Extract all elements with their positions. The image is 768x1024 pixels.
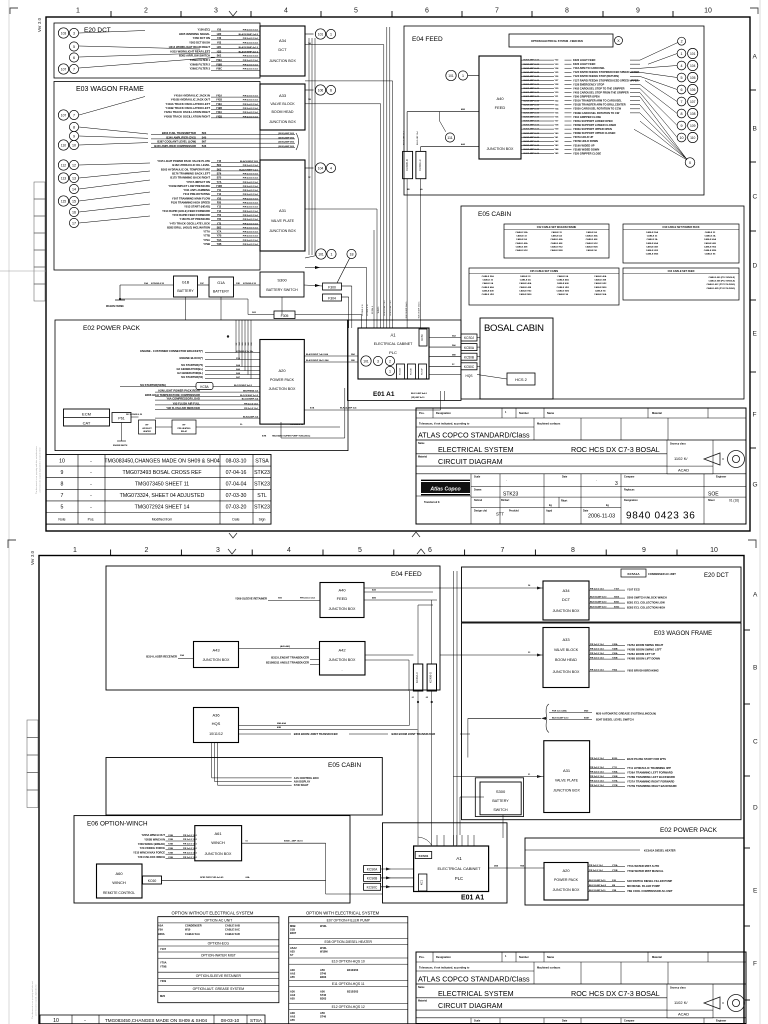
junction box A33 bbox=[260, 84, 305, 130]
svg-text:CABLE 408: CABLE 408 bbox=[704, 242, 717, 245]
svg-text:18: 18 bbox=[350, 252, 354, 256]
svg-text:Y010B IMPACT LOW PRESSURE: Y010B IMPACT LOW PRESSURE bbox=[168, 184, 210, 188]
option feed rhs box bbox=[509, 34, 613, 47]
svg-text:Y19A: Y19A bbox=[216, 103, 222, 106]
svg-text:-: - bbox=[90, 482, 92, 488]
junction box A20 p2 bbox=[544, 863, 588, 901]
svg-text:Y9B: Y9B bbox=[217, 243, 222, 246]
HCS 2 box bbox=[507, 373, 535, 385]
svg-text:Y42A: Y42A bbox=[216, 111, 222, 114]
svg-text:60A: 60A bbox=[246, 876, 250, 879]
junction box A42 bbox=[320, 642, 366, 676]
svg-text:PIR 2x0.5 13x1: PIR 2x0.5 13x1 bbox=[243, 190, 259, 192]
svg-text:1: 1 bbox=[331, 252, 333, 256]
connector KC40A-C p2 bbox=[413, 664, 422, 691]
svg-text:103: 103 bbox=[61, 31, 67, 35]
junction box A31 p2 bbox=[544, 741, 590, 813]
svg-text:A56: A56 bbox=[320, 1011, 325, 1015]
svg-text:Y420A TRACK OSCILLATION RIGHT: Y420A TRACK OSCILLATION RIGHT bbox=[164, 110, 210, 114]
svg-text:Y403 CAROUSEL STOP FROM THE GR: Y403 CAROUSEL STOP FROM THE GRIPPER bbox=[573, 90, 629, 94]
battery switch S300 bbox=[260, 272, 304, 297]
svg-text:Y307B HOLD DOWN: Y307B HOLD DOWN bbox=[573, 139, 598, 143]
svg-text:PIR 2x0.5 13x1: PIR 2x0.5 13x1 bbox=[243, 173, 259, 175]
svg-text:KC50: KC50 bbox=[420, 334, 424, 341]
svg-text:PIR 3x0.5 13x1: PIR 3x0.5 13x1 bbox=[243, 165, 259, 167]
svg-text:CABLE 40A: CABLE 40A bbox=[585, 235, 598, 238]
ECM CAT box bbox=[64, 409, 110, 426]
svg-text:JUNCTION BOX: JUNCTION BOX bbox=[553, 888, 580, 892]
svg-text:E04 FEED: E04 FEED bbox=[412, 36, 443, 43]
svg-text:Y127 RAPID FEED/H STOP/REDUCED: Y127 RAPID FEED/H STOP/REDUCED SPEED UPP… bbox=[573, 78, 639, 82]
svg-text:PIR 2x0.5 13x1: PIR 2x0.5 13x1 bbox=[243, 244, 259, 246]
svg-text:PIR 2x0.5 13x1: PIR 2x0.5 13x1 bbox=[589, 865, 604, 867]
svg-text:permission be copied, duplicat: permission be copied, duplicated or show… bbox=[39, 448, 42, 492]
svg-text:101: 101 bbox=[363, 359, 369, 363]
svg-text:A31: A31 bbox=[563, 768, 571, 773]
svg-text:PIR 2x0.5 13x1: PIR 2x0.5 13x1 bbox=[243, 100, 259, 102]
svg-text:Y425A BOOM SWING RIGHT: Y425A BOOM SWING RIGHT bbox=[627, 643, 664, 647]
svg-text:Y303B CAROUSEL ROTATION TO CW: Y303B CAROUSEL ROTATION TO CW bbox=[573, 111, 620, 115]
svg-text:KC1A3: KC1A3 bbox=[399, 367, 402, 375]
svg-text:S1B: S1B bbox=[290, 928, 295, 932]
svg-text:6: 6 bbox=[428, 547, 432, 554]
svg-text:CABLE 40A: CABLE 40A bbox=[594, 275, 607, 278]
node 107 bbox=[58, 64, 68, 74]
svg-text:VALVE BLOCK: VALVE BLOCK bbox=[270, 102, 295, 106]
svg-text:10: 10 bbox=[72, 143, 76, 147]
svg-text:ELECTRICAL SYSTEM: ELECTRICAL SYSTEM bbox=[438, 445, 514, 454]
svg-text:E05 CABIN: E05 CABIN bbox=[478, 211, 512, 218]
svg-text:P20: P20 bbox=[217, 202, 222, 205]
svg-text:CABLE 40A: CABLE 40A bbox=[482, 286, 495, 289]
svg-text:BLK/9-6BP 2x13: BLK/9-6BP 2x13 bbox=[524, 84, 540, 86]
svg-text:STK23: STK23 bbox=[254, 470, 270, 476]
svg-text:(3030)-6BP 3K0: (3030)-6BP 3K0 bbox=[278, 137, 295, 139]
svg-text:Y20B: Y20B bbox=[168, 835, 174, 837]
svg-text:KC40A-C: KC40A-C bbox=[418, 159, 422, 170]
svg-text:3A4: 3A4 bbox=[238, 342, 241, 345]
wire across to bundle bbox=[305, 267, 367, 269]
svg-text:KC50A: KC50A bbox=[464, 346, 475, 350]
svg-text:G1A: G1A bbox=[217, 281, 225, 285]
node 7 bbox=[69, 64, 78, 73]
svg-text:1: 1 bbox=[462, 74, 464, 78]
svg-text:D: D bbox=[753, 805, 758, 812]
svg-text:Y420B TRACK OSCILLATION RIGHT: Y420B TRACK OSCILLATION RIGHT bbox=[164, 114, 211, 118]
svg-text:JUNCTION BOX: JUNCTION BOX bbox=[553, 670, 580, 674]
svg-text:07-04-16: 07-04-16 bbox=[226, 470, 247, 476]
svg-text:B346 AMPLIFIER COMPRESSOR: B346 AMPLIFIER COMPRESSOR bbox=[154, 144, 196, 148]
svg-text:FEED: FEED bbox=[495, 105, 506, 110]
svg-text:6: 6 bbox=[681, 88, 683, 92]
svg-text:B67: B67 bbox=[202, 141, 207, 144]
svg-text:KCS0A: KCS0A bbox=[367, 868, 378, 872]
svg-text:BLK/9-6BP 2x13: BLK/9-6BP 2x13 bbox=[524, 117, 540, 119]
svg-text:D: D bbox=[753, 263, 758, 270]
svg-text:PIR 2x0.5 13x1: PIR 2x0.5 13x1 bbox=[243, 116, 259, 118]
revision row page 2 bbox=[40, 1015, 265, 1024]
svg-text:07-03-30: 07-03-30 bbox=[226, 493, 247, 499]
KC5A2A wire bbox=[525, 849, 640, 851]
svg-text:ACAD: ACAD bbox=[678, 1012, 689, 1017]
svg-text:Y20B: Y20B bbox=[168, 857, 174, 859]
svg-text:A: A bbox=[753, 592, 758, 599]
svg-text:BLK/9-6BP 2x13: BLK/9-6BP 2x13 bbox=[524, 141, 540, 143]
svg-text:(3030)-6BP 3K0: (3030)-6BP 3K0 bbox=[278, 142, 295, 144]
svg-text:S500 SWITCH UNLOCK WINCH: S500 SWITCH UNLOCK WINCH bbox=[627, 596, 667, 600]
junction box A34 bbox=[260, 26, 305, 76]
svg-text:CABLE 408: CABLE 408 bbox=[586, 238, 599, 241]
svg-text:Pos.: Pos. bbox=[419, 955, 425, 959]
svg-text:S746: S746 bbox=[320, 1015, 327, 1019]
svg-text:PIR 2x0.5 13x1: PIR 2x0.5 13x1 bbox=[243, 108, 259, 110]
svg-text:KCS0B: KCS0B bbox=[367, 877, 377, 881]
svg-text:E08 OPTION-DIESEL HEATER: E08 OPTION-DIESEL HEATER bbox=[325, 940, 373, 944]
svg-text:E01 A1: E01 A1 bbox=[461, 895, 484, 902]
svg-text:BOOM HEAD: BOOM HEAD bbox=[272, 110, 294, 114]
svg-text:CABLE 40C (P57 FOLDING): CABLE 40C (P57 FOLDING) bbox=[706, 283, 735, 286]
E04 left nodes bbox=[446, 70, 456, 80]
KC50 connector boxes right bbox=[461, 334, 477, 341]
svg-text:E03 WAGON FRAME: E03 WAGON FRAME bbox=[76, 86, 144, 93]
svg-text:B351: B351 bbox=[614, 602, 620, 604]
svg-text:Y69A: Y69A bbox=[216, 59, 222, 62]
svg-text:B82: B82 bbox=[217, 226, 222, 229]
svg-text:8: 8 bbox=[681, 112, 683, 116]
svg-text:115: 115 bbox=[61, 199, 66, 203]
svg-text:Replaces: Replaces bbox=[624, 489, 635, 492]
svg-text:F: F bbox=[753, 961, 757, 968]
svg-text:HEATER: HEATER bbox=[143, 430, 151, 433]
svg-text:JUNCTION BOX: JUNCTION BOX bbox=[329, 607, 356, 611]
svg-text:VALVE PLATE: VALVE PLATE bbox=[271, 219, 295, 223]
svg-text:M1 STARTER(75): M1 STARTER(75) bbox=[181, 363, 203, 367]
svg-text:KONGE-6 16: KONGE-6 16 bbox=[367, 304, 369, 315]
svg-text:Y425B BOOM SWING LEFT: Y425B BOOM SWING LEFT bbox=[627, 648, 662, 652]
svg-text:SWITCH: SWITCH bbox=[493, 808, 508, 812]
wires ECM row bbox=[131, 416, 139, 418]
title block page 2 partial bbox=[416, 952, 746, 1024]
svg-text:BLOCK/WHP 2x4: BLOCK/WHP 2x4 bbox=[242, 398, 259, 401]
svg-text:CABLE 50A: CABLE 50A bbox=[646, 231, 659, 234]
svg-text:Y011 ANTI-JAMMING: Y011 ANTI-JAMMING bbox=[183, 188, 210, 192]
svg-text:2: 2 bbox=[389, 359, 391, 363]
battery switch S300 p2 bbox=[475, 778, 523, 817]
svg-text:C04 CABLE SET FEED: C04 CABLE SET FEED bbox=[668, 270, 695, 273]
svg-text:BLK/9-6BP 2x13: BLK/9-6BP 2x13 bbox=[524, 92, 540, 94]
svg-text:PIR 2x0.5 13x1: PIR 2x0.5 13x1 bbox=[183, 839, 198, 841]
svg-text:Y15: Y15 bbox=[217, 160, 222, 163]
svg-text:STK23: STK23 bbox=[503, 492, 519, 498]
svg-text:BLK/29-6BP 19x0.5: BLK/29-6BP 19x0.5 bbox=[406, 302, 408, 319]
svg-text:CABLE 2A: CABLE 2A bbox=[520, 279, 531, 282]
svg-text:A36: A36 bbox=[290, 968, 295, 972]
svg-text:WAGON FRAME: WAGON FRAME bbox=[106, 305, 124, 308]
svg-text:BLK/29-6BP 70x1: BLK/29-6BP 70x1 bbox=[390, 301, 392, 316]
svg-text:KONGE-6 16: KONGE-6 16 bbox=[362, 304, 364, 315]
svg-text:104: 104 bbox=[690, 64, 696, 68]
svg-text:Y426B BOOM LIFT DOWN: Y426B BOOM LIFT DOWN bbox=[627, 657, 660, 661]
svg-text:PRE-HEATING: PRE-HEATING bbox=[178, 427, 191, 430]
node 106 bbox=[315, 85, 325, 95]
svg-text:-: - bbox=[90, 470, 92, 476]
svg-text:Y79B: Y79B bbox=[203, 242, 210, 246]
svg-text:A40: A40 bbox=[338, 588, 346, 593]
svg-text:OPTION-AC UNIT: OPTION-AC UNIT bbox=[204, 918, 232, 922]
svg-text:Y26B: Y26B bbox=[612, 776, 618, 778]
svg-text:Y160 PILOT PRESSURE: Y160 PILOT PRESSURE bbox=[180, 217, 211, 221]
svg-text:KONGE-6 16: KONGE-6 16 bbox=[290, 424, 304, 426]
svg-text:Number: Number bbox=[519, 411, 529, 415]
svg-text:CABLE 40A: CABLE 40A bbox=[646, 242, 659, 245]
svg-text:Y012 PRE-ROTATING: Y012 PRE-ROTATING bbox=[183, 192, 210, 196]
svg-text:PIR 2x0.5 13x1: PIR 2x0.5 13x1 bbox=[590, 670, 605, 672]
svg-text:Pos.: Pos. bbox=[88, 517, 95, 521]
svg-text:Y118 ARM TO CAROUSEL: Y118 ARM TO CAROUSEL bbox=[573, 66, 605, 70]
svg-text:Scale: Scale bbox=[474, 476, 481, 479]
svg-text:PIR 2x0.5 13x1: PIR 2x0.5 13x1 bbox=[243, 104, 259, 106]
svg-text:Material: Material bbox=[652, 411, 662, 415]
svg-text:PIR 2x0.5 13x1: PIR 2x0.5 13x1 bbox=[590, 785, 605, 787]
svg-text:-: - bbox=[84, 1018, 86, 1024]
svg-text:CABLE 2A: CABLE 2A bbox=[705, 235, 716, 238]
svg-text:CIRCUIT DIAGRAM: CIRCUIT DIAGRAM bbox=[438, 457, 503, 466]
svg-text:1: 1 bbox=[389, 369, 391, 373]
svg-text:STSA: STSA bbox=[255, 458, 269, 464]
svg-text:BLK/10-6BP 2x10: BLK/10-6BP 2x10 bbox=[552, 718, 569, 720]
svg-text:Y50: Y50 bbox=[217, 197, 222, 200]
svg-text:JUNCTION BOX: JUNCTION BOX bbox=[487, 147, 514, 151]
svg-text:3A6: 3A6 bbox=[244, 342, 247, 345]
svg-text:Y70A WATER MIST AUTO: Y70A WATER MIST AUTO bbox=[627, 864, 659, 868]
svg-text:Y307A HOLD UP: Y307A HOLD UP bbox=[573, 135, 593, 139]
svg-text:ATLAS COPCO STANDARD/Class: ATLAS COPCO STANDARD/Class bbox=[418, 975, 530, 984]
svg-text:KC5A1A: KC5A1A bbox=[627, 572, 640, 576]
svg-text:1: 1 bbox=[330, 32, 332, 36]
svg-text:BLK/9-6BP 2x13: BLK/9-6BP 2x13 bbox=[524, 60, 540, 62]
svg-text:E01 A1: E01 A1 bbox=[373, 391, 395, 398]
svg-text:BOSAL CABIN: BOSAL CABIN bbox=[484, 323, 544, 334]
svg-text:W10L: W10L bbox=[320, 946, 327, 950]
svg-text:STL: STL bbox=[257, 493, 267, 499]
section box E06 OPTION-WINCH bbox=[74, 816, 350, 903]
battery G1A bbox=[209, 277, 234, 297]
svg-text:Appd: Appd bbox=[546, 510, 553, 513]
svg-text:PIR 2x0.5 13x1: PIR 2x0.5 13x1 bbox=[590, 644, 605, 646]
svg-text:HQS: HQS bbox=[212, 721, 221, 726]
svg-text:Y209 WINCH (BREAK): Y209 WINCH (BREAK) bbox=[138, 842, 165, 846]
section box E03 WAGON FRAME p2 bbox=[462, 623, 742, 820]
KC60 wire bbox=[162, 879, 326, 881]
winch remote A60 bbox=[97, 864, 143, 898]
svg-text:Material: Material bbox=[418, 456, 427, 459]
svg-text:B62: B62 bbox=[217, 164, 222, 167]
svg-text:B303 BOOM JOINT TRANSDUCER: B303 BOOM JOINT TRANSDUCER bbox=[392, 732, 436, 736]
wire into A34 p2 bbox=[364, 587, 543, 589]
svg-text:Drawn: Drawn bbox=[474, 489, 482, 492]
svg-text:BLK/9-6BP 2x13: BLK/9-6BP 2x13 bbox=[524, 145, 540, 147]
E03 group3 label rows to A31 bbox=[211, 162, 260, 164]
svg-text:Y205A WINCH OUT: Y205A WINCH OUT bbox=[141, 833, 165, 837]
svg-text:CABLE 2A: CABLE 2A bbox=[557, 275, 568, 278]
wire 18 to F300 bbox=[337, 259, 350, 284]
svg-text:Material: Material bbox=[418, 1000, 427, 1003]
svg-text:JUNCTION BOX: JUNCTION BOX bbox=[269, 59, 296, 63]
svg-text:B76: B76 bbox=[217, 172, 222, 175]
node 101 right of A34 bbox=[315, 29, 325, 39]
svg-text:SPIR PWR PUR 4x0.65: SPIR PWR PUR 4x0.65 bbox=[200, 876, 224, 879]
svg-text:Y726B TRAMMING LEFT BACKWARD: Y726B TRAMMING LEFT BACKWARD bbox=[627, 775, 675, 779]
svg-text:BLK/9-6BP 19x1: BLK/9-6BP 19x1 bbox=[404, 131, 406, 145]
svg-text:BLK/29-6BP 19x0.5: BLK/29-6BP 19x0.5 bbox=[419, 302, 421, 319]
junction box A43 bbox=[194, 642, 239, 668]
wires KC50x into BOSAL bbox=[477, 337, 480, 339]
svg-text:B120: B120 bbox=[612, 758, 618, 760]
svg-text:B340 AMPLIFIER (DYS): B340 AMPLIFIER (DYS) bbox=[166, 135, 196, 139]
battery G1B bbox=[174, 276, 198, 297]
svg-text:9: 9 bbox=[681, 124, 683, 128]
svg-text:2: 2 bbox=[145, 547, 149, 554]
svg-text:E07 OPTION-FILLER PUMP: E07 OPTION-FILLER PUMP bbox=[327, 918, 371, 922]
svg-text:(3R)-6BP 4x10: (3R)-6BP 4x10 bbox=[411, 396, 425, 399]
E20 wire label rows bbox=[211, 30, 260, 32]
svg-text:Y5A: Y5A bbox=[158, 928, 163, 932]
node 103 bbox=[58, 28, 68, 38]
svg-text:08-03-10: 08-03-10 bbox=[226, 458, 247, 464]
svg-text:CABLE 2A: CABLE 2A bbox=[482, 282, 493, 285]
battery drop wires bbox=[185, 297, 187, 320]
svg-text:KC40B-D: KC40B-D bbox=[429, 672, 433, 683]
section box E05 CABIN bbox=[461, 206, 744, 399]
svg-text:Rkurt: Rkurt bbox=[561, 500, 567, 503]
svg-text:P120 TRAMMING HIGH SPEED: P120 TRAMMING HIGH SPEED bbox=[171, 201, 210, 205]
svg-text:Y26A: Y26A bbox=[612, 652, 618, 655]
svg-text:Designation: Designation bbox=[436, 411, 451, 415]
svg-text:S746 SIGHT: S746 SIGHT bbox=[294, 783, 309, 787]
svg-text:Y475 TRACK OSCILLATE LOCK: Y475 TRACK OSCILLATE LOCK bbox=[169, 221, 210, 225]
svg-text:F: F bbox=[753, 412, 757, 419]
node 1 right of A34 bbox=[326, 29, 335, 38]
svg-text:S300: S300 bbox=[496, 789, 506, 794]
svg-text:Y50: Y50 bbox=[217, 214, 222, 217]
svg-text:BLACK/WHP 7x4.0 2A4: BLACK/WHP 7x4.0 2A4 bbox=[306, 353, 329, 356]
svg-text:PIR 2x0.5 13x1: PIR 2x0.5 13x1 bbox=[243, 207, 259, 209]
page 1 left connector strip bbox=[34, 182, 45, 199]
svg-text:B310/B311 ANGLE TRANSDUCER: B310/B311 ANGLE TRANSDUCER bbox=[266, 661, 309, 665]
svg-text:A61: A61 bbox=[214, 831, 222, 836]
svg-text:4: 4 bbox=[681, 64, 683, 68]
svg-text:JUNCTION BOX: JUNCTION BOX bbox=[329, 658, 356, 662]
svg-text:CABLE 33: CABLE 33 bbox=[520, 275, 531, 278]
svg-text:8: 8 bbox=[73, 125, 75, 129]
svg-text:9: 9 bbox=[73, 134, 75, 138]
svg-text:CABLE 408: CABLE 408 bbox=[482, 289, 495, 292]
svg-text:A34: A34 bbox=[562, 588, 570, 593]
svg-text:Y70A: Y70A bbox=[160, 961, 167, 965]
central vertical wire bundle bbox=[383, 45, 385, 328]
A1 p2 top wires bbox=[436, 835, 438, 846]
svg-text:M1 STARTER(50/5E): M1 STARTER(50/5E) bbox=[140, 383, 166, 387]
svg-text:BLOCK/WHP 2x0.5: BLOCK/WHP 2x0.5 bbox=[240, 395, 259, 397]
svg-text:Designation: Designation bbox=[624, 499, 638, 502]
E03 p2 vertical risers bbox=[452, 571, 454, 845]
svg-text:7: 7 bbox=[495, 8, 499, 15]
svg-text:B313 LENGHT TRANSDUCER: B313 LENGHT TRANSDUCER bbox=[271, 656, 309, 660]
cable table C04 feed bbox=[623, 268, 739, 300]
svg-text:Y269C FILTER 3: Y269C FILTER 3 bbox=[190, 67, 211, 71]
svg-text:PIR 2x0.5 13x1: PIR 2x0.5 13x1 bbox=[243, 178, 259, 180]
svg-text:ELECTRICAL CABINET: ELECTRICAL CABINET bbox=[438, 866, 482, 871]
svg-text:BLK/10-6BP 2x10: BLK/10-6BP 2x10 bbox=[589, 880, 606, 882]
svg-text:PIR 2x0.5 13x1: PIR 2x0.5 13x1 bbox=[243, 215, 259, 217]
svg-text:Y309 SLEEVE RETAINER: Y309 SLEEVE RETAINER bbox=[235, 597, 267, 601]
svg-text:Secrecy class: Secrecy class bbox=[670, 987, 686, 990]
svg-text:A36: A36 bbox=[290, 990, 295, 994]
E04 node circles right bbox=[678, 37, 686, 45]
svg-text:TMG083450,CHANGES MADE ON SH09: TMG083450,CHANGES MADE ON SH09 & SH04 bbox=[104, 458, 219, 464]
svg-text:PIR 2x0.5 13x1: PIR 2x0.5 13x1 bbox=[243, 64, 259, 66]
connector KCS01 bbox=[415, 852, 432, 859]
svg-text:A31: A31 bbox=[279, 208, 287, 213]
svg-text:AA2: AA2 bbox=[290, 993, 296, 997]
svg-text:3: 3 bbox=[73, 31, 75, 35]
svg-text:13: 13 bbox=[72, 176, 76, 180]
svg-text:Secrecy class: Secrecy class bbox=[670, 443, 686, 446]
E20 wires to label rows bbox=[79, 31, 145, 34]
electrical cabinet A1 bbox=[358, 328, 429, 379]
svg-text:Y205B WINCH IN: Y205B WINCH IN bbox=[144, 837, 165, 841]
svg-text:BLACK/WHP 4x1.5: BLACK/WHP 4x1.5 bbox=[239, 50, 259, 53]
svg-text:A1: A1 bbox=[390, 333, 396, 338]
svg-text:Y707A IMPACT ON: Y707A IMPACT ON bbox=[186, 180, 210, 184]
A1 node circles bbox=[361, 356, 371, 366]
wire hook to 111 bbox=[439, 112, 441, 121]
svg-text:Y014 RAPID (HOLE) FEED FORWARD: Y014 RAPID (HOLE) FEED FORWARD bbox=[162, 209, 210, 213]
svg-text:Y27B: Y27B bbox=[612, 785, 618, 787]
wire into A31 p2 bbox=[453, 776, 543, 778]
svg-text:Y419A TRACK OSCILLATION LEFT: Y419A TRACK OSCILLATION LEFT bbox=[166, 102, 211, 106]
connector KC50 on A1 bbox=[419, 329, 427, 346]
svg-text:RELAY: RELAY bbox=[181, 430, 188, 433]
svg-text:OPTION ELECTRICAL SYSTEM - FEE: OPTION ELECTRICAL SYSTEM - FEED RHS bbox=[531, 40, 583, 43]
svg-text:A34: A34 bbox=[279, 38, 287, 43]
node 111 bbox=[445, 133, 454, 142]
svg-text:B347 DIESEL LEVEL SWITCH: B347 DIESEL LEVEL SWITCH bbox=[596, 718, 634, 722]
svg-text:CABLE 408 (P12 SINGLE): CABLE 408 (P12 SINGLE) bbox=[709, 280, 736, 283]
svg-text:Y214 WINCH FORCE: Y214 WINCH FORCE bbox=[140, 846, 166, 850]
svg-text:B176 TRAMMING BACK LEFT: B176 TRAMMING BACK LEFT bbox=[172, 171, 210, 175]
svg-text:6: 6 bbox=[73, 56, 75, 60]
svg-text:DCT: DCT bbox=[278, 47, 287, 52]
svg-text:ELECTRICAL SYSTEM: ELECTRICAL SYSTEM bbox=[438, 989, 514, 998]
svg-text:PIR 2x0.5 13x1: PIR 2x0.5 13x1 bbox=[590, 772, 605, 774]
svg-text:PIR 2x0.5 13x1: PIR 2x0.5 13x1 bbox=[243, 198, 259, 200]
svg-text:Number: Number bbox=[519, 955, 529, 959]
svg-text:5: 5 bbox=[358, 547, 362, 554]
svg-text:JUNCTION BOX: JUNCTION BOX bbox=[553, 789, 580, 793]
svg-text:E: E bbox=[753, 888, 758, 895]
svg-text:CABLE 40A: CABLE 40A bbox=[519, 282, 532, 285]
svg-text:Material: Material bbox=[652, 955, 662, 959]
svg-text:BLK/10-6BP 4x4.5: BLK/10-6BP 4x4.5 bbox=[589, 884, 607, 887]
svg-text:07-03-20: 07-03-20 bbox=[226, 505, 247, 511]
svg-text:B352: B352 bbox=[614, 607, 620, 609]
svg-text:CABLE H52: CABLE H52 bbox=[550, 245, 563, 248]
svg-text:7: 7 bbox=[61, 493, 64, 499]
svg-text:H2N LIGHT POWER PACK REAR: H2N LIGHT POWER PACK REAR bbox=[158, 389, 200, 393]
svg-text:Y26: Y26 bbox=[217, 37, 222, 40]
svg-text:Y952 BRUSH BREAKING: Y952 BRUSH BREAKING bbox=[627, 669, 659, 673]
